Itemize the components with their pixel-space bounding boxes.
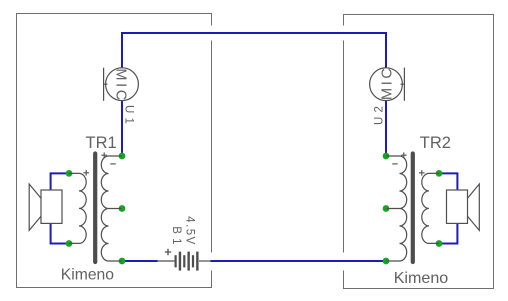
transformer TR2 primary coil (left, tapped) <box>387 156 407 261</box>
battery B1 lead left <box>158 260 175 262</box>
wire mic1 output to TR1 node <box>121 101 123 155</box>
svg-text:MIC: MIC <box>113 68 129 102</box>
TR2 polarity mark + (right coil) <box>419 170 425 176</box>
node TR1 center tap <box>119 205 126 212</box>
node TR1 bottom <box>119 258 126 265</box>
battery B1 plus mark <box>165 249 171 255</box>
battery B1 lead right <box>199 260 211 262</box>
microphone U1 <box>104 68 139 101</box>
node TR1 secondary bottom <box>66 240 73 247</box>
node TR2 top <box>383 153 390 160</box>
transformer TR2 secondary coil (right, speaker side) <box>422 173 439 243</box>
node TR1 secondary top <box>66 170 73 177</box>
TR2 polarity mark - (left coil) <box>392 163 398 165</box>
svg-text:4.5V: 4.5V <box>184 216 196 246</box>
svg-text:TR1: TR1 <box>86 134 117 152</box>
battery B1 plates <box>176 252 198 271</box>
wire battery to TR2 bottom <box>211 260 385 262</box>
transformer TR1 secondary coil (left, speaker side) <box>69 173 86 243</box>
transformer TR2 core <box>411 154 415 263</box>
node TR2 bottom <box>383 258 390 265</box>
transformer TR1 primary coil (right, tapped) <box>101 156 121 261</box>
TR1 polarity mark - (right coil) <box>110 163 116 165</box>
svg-text:MIC: MIC <box>379 66 395 100</box>
wire speaker LS2 top <box>439 173 457 190</box>
TR2 polarity mark + (left coil) <box>401 152 407 158</box>
node TR2 secondary top <box>436 170 443 177</box>
svg-text:U1: U1 <box>122 105 134 128</box>
transformer TR1 core <box>93 154 97 263</box>
node TR2 secondary bottom <box>436 240 443 247</box>
enclosure box left <box>17 14 212 288</box>
wire speaker LS1 bottom <box>51 224 69 244</box>
TR1 polarity mark + (right coil) <box>101 152 107 158</box>
wire TR1 bottom to battery <box>124 260 158 262</box>
speaker LS1 <box>29 184 62 230</box>
svg-text:Kimeno: Kimeno <box>61 267 114 284</box>
TR1 polarity mark + (left coil) <box>83 170 89 176</box>
enclosure box right <box>344 15 494 289</box>
wire speaker LS2 bottom <box>439 224 457 244</box>
svg-text:B1: B1 <box>170 226 182 248</box>
microphone U2 <box>370 68 405 101</box>
node TR2 center tap <box>383 205 390 212</box>
speaker LS2 <box>447 184 480 230</box>
wire top net mic1 to mic2 <box>122 33 386 68</box>
node TR1 top (junction dot) <box>119 153 126 160</box>
svg-text:Kimeno: Kimeno <box>394 269 449 287</box>
svg-text:TR2: TR2 <box>420 134 451 152</box>
wire mic2 output to TR2 node <box>385 101 387 155</box>
svg-text:U2: U2 <box>374 102 386 125</box>
wire speaker LS1 top <box>51 173 69 190</box>
